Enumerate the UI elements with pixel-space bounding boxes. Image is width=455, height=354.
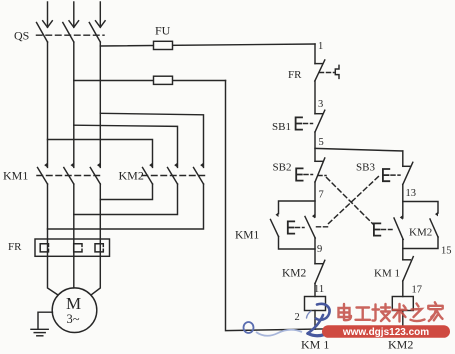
ground wire [38,312,52,328]
svg-text:KM2: KM2 [388,338,413,352]
svg-text:www.dgjs123.com: www.dgjs123.com [342,327,429,338]
svg-text:3~: 3~ [67,312,80,326]
button SB2 tick [315,160,323,162]
wire L3 QS to KM1 [99,42,101,167]
wire node7 [314,182,316,217]
SB2 interlock dashed diagonal [318,175,326,177]
svg-text:SB2: SB2 [273,162,292,174]
contact KM1 pole3 [97,163,100,168]
wire node13 [402,185,404,219]
svg-text:KM2: KM2 [409,227,432,239]
switch QS blade pole3 [89,23,100,43]
button SB1 blade [315,110,325,132]
QS linkage dashed [37,34,105,36]
button SB3 actuator E [383,169,389,181]
contact KM1 NC blade [403,257,414,281]
contact KM1 pole1 [44,163,47,168]
contact KM1 aux arrow [276,212,279,217]
svg-text:2: 2 [295,312,300,323]
watermark red band [322,325,450,338]
control right branch down [402,151,404,166]
contact KM1 pole2 [71,163,74,168]
wire node9 [314,238,316,264]
ground bars [31,328,48,330]
wire coil KM1 to rail [314,311,316,330]
FR heater 3 [95,244,103,252]
wire L3 to KM2 pole3 [100,113,203,167]
contact SB2 NC blade [394,218,403,240]
watermark light wave [256,330,302,336]
svg-text:KM2: KM2 [282,268,307,280]
svg-text:5: 5 [319,137,324,148]
wire KM1 outputs down [48,184,59,295]
switch QS blade pole2 [63,23,74,43]
button SB2 actuator E [296,168,302,180]
wire node1-3 [314,81,316,114]
thermal relay FR box [35,239,110,256]
button SB3 blade [403,162,413,184]
char ji [373,304,391,321]
button SB1 actuator E [296,117,302,129]
svg-text:FR: FR [8,241,22,253]
wire node15 [402,240,404,260]
button SB1 tick [315,113,323,115]
SB3 interlock dashed diagonal [329,176,380,224]
FR heater 2 [74,244,82,252]
switch QS blade pole1 [37,23,48,43]
char gong [356,308,371,320]
contact KM1 aux blade [271,220,279,237]
svg-text:M: M [66,294,81,313]
wire FU2 feed [74,80,226,82]
char dian [339,304,352,320]
svg-text:13: 13 [406,188,417,199]
wire latch KM1 branch top [279,201,316,214]
wire L2 incoming [73,2,75,27]
contact SB3 NC blade [305,217,315,239]
svg-text:FU: FU [155,24,171,38]
wire L2 QS to KM1 [73,42,75,167]
coil KM2 [392,297,413,311]
svg-text:1: 1 [318,41,323,52]
wire latch KM1 branch bottom [279,237,316,250]
svg-text:SB3: SB3 [356,162,375,174]
svg-text:FR: FR [288,69,302,81]
wire node5 rail right [315,148,403,151]
wire KM2 output1 cross [100,184,152,200]
KM2 linkage dashed [142,175,205,177]
wire control return rail [226,81,403,331]
char shu [393,304,407,322]
contact KM2 NC blade [315,260,325,283]
svg-text:KM1: KM1 [235,230,260,242]
svg-text:11: 11 [314,284,324,295]
wire node17 [402,281,404,297]
wire KM2 output3 cross [48,184,204,229]
wire latch KM2 branch top [403,202,438,214]
contact FR tick [315,63,323,65]
contact FR blade [315,60,325,81]
svg-text:3: 3 [318,99,323,110]
watermark chinese text [339,302,443,321]
contact SB2 NC arrow [400,215,403,220]
svg-text:KM2: KM2 [119,169,144,183]
FR release symbol [335,65,339,78]
svg-text:QS: QS [14,29,29,43]
svg-text:9: 9 [317,244,322,255]
fuse FU2 [154,76,173,84]
contact KM1 NC tick [403,259,411,261]
contact KM2 pole3 [200,163,203,168]
svg-text:7: 7 [319,190,324,201]
wire L1 QS to KM1 [47,42,49,167]
motor M circle [52,288,97,333]
wire L1 to KM2 pole1 [48,140,153,168]
button SB2 blade [315,158,325,182]
svg-text:15: 15 [441,246,452,257]
char jia [428,302,442,321]
SB3 NC actuator E [288,221,294,233]
svg-text:KM 1: KM 1 [301,338,329,352]
wire L1 incoming [47,2,49,27]
svg-text:17: 17 [412,285,423,296]
contact KM2 NC tick [315,263,323,265]
contact KM2 aux blade [430,219,438,237]
wire latch KM2 branch bottom [403,237,438,249]
SB2 NC actuator E [374,223,380,235]
wire coil KM2 to rail [402,311,404,328]
svg-text:KM1: KM1 [3,169,28,183]
contact KM2 aux arrow [435,212,438,217]
contact KM2 pole1 [149,163,152,168]
button SB3 tick [403,165,410,167]
control left rail down [314,44,316,64]
svg-text:KM 1: KM 1 [374,268,400,280]
watermark [244,302,451,338]
fuse FU1 [154,41,173,49]
wire L3 incoming [99,2,101,27]
coil KM1 [305,297,326,311]
wire to node5 [314,132,316,161]
watermark blue curl [244,322,254,333]
arrow L1 [43,21,53,28]
KM1 linkage dashed [37,175,102,177]
wire L2 to KM2 pole2 [74,125,178,167]
SB3 interlock dashes right [317,226,328,228]
watermark blue logo [307,304,332,336]
wire node11 [314,284,316,297]
char zhi [411,304,425,322]
FR heater 1 [40,244,48,252]
svg-text:SB1: SB1 [272,121,291,133]
contact SB3 NC arrow [312,214,315,219]
arrow L3 [96,21,106,28]
wire KM2 output2 cross [74,184,178,215]
FR actuator dashes [320,72,335,74]
contact KM2 pole2 [174,163,177,168]
arrow L2 [69,21,79,28]
wire FU1 feed [100,44,315,46]
